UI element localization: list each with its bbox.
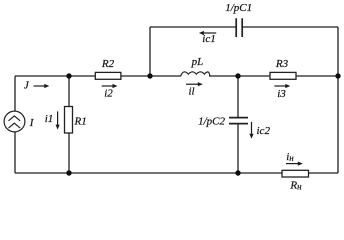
node at right vertical [335, 73, 340, 78]
wire: top C1 branch vertical left [149, 27, 151, 76]
svg-text:R2: R2 [101, 58, 115, 70]
wire: main horizontal left segment [15, 75, 95, 77]
arrow in [286, 162, 303, 166]
svg-text:R1: R1 [74, 115, 87, 127]
capacitor C2 [229, 118, 248, 124]
node at R1 top [66, 73, 71, 78]
wire: bottom horizontal right [309, 172, 339, 174]
node at C2 branch bottom [235, 170, 240, 175]
svg-text:1/pC1: 1/pC1 [225, 2, 252, 14]
resistor R3 [270, 72, 296, 79]
svg-text:i1: i1 [45, 113, 54, 125]
capacitor C1 [236, 18, 242, 37]
wire: C2 branch upper [237, 76, 239, 117]
resistor Rn (load) [282, 170, 309, 177]
arrow ic2 [249, 122, 253, 139]
arrow il [186, 82, 203, 86]
arrow ic1 [199, 31, 216, 35]
svg-text:iн: iн [286, 151, 294, 163]
svg-text:i3: i3 [277, 88, 286, 100]
resistor R2 [95, 72, 121, 79]
wire: left vertical upper [14, 76, 16, 111]
wire: left vertical lower [14, 132, 16, 173]
svg-text:ic1: ic1 [202, 33, 215, 45]
wire: main horizontal R3-to-right [296, 75, 338, 77]
wire: R1 branch lower [68, 133, 70, 173]
wire: C2 branch lower [237, 124, 239, 173]
current source I [4, 111, 25, 132]
arrow i1 [56, 111, 60, 129]
arrow J [34, 84, 50, 88]
svg-text:il: il [188, 86, 194, 98]
svg-text:R3: R3 [275, 58, 289, 70]
svg-text:i2: i2 [104, 88, 113, 100]
svg-text:Rн: Rн [289, 180, 302, 192]
node at C1 branch left [147, 73, 152, 78]
wire: main horizontal R2-to-inductor [121, 75, 181, 77]
wire: top C1 branch horizontal right [242, 26, 338, 28]
wire: bottom horizontal left [15, 172, 282, 174]
svg-text:pL: pL [191, 56, 204, 68]
wire: main horizontal inductor-to-R3 [209, 75, 270, 77]
node at C2 branch top [235, 73, 240, 78]
svg-text:1/pC2: 1/pC2 [198, 116, 225, 128]
resistor R1 [65, 107, 73, 134]
svg-text:I: I [29, 117, 35, 129]
svg-text:ic2: ic2 [257, 125, 271, 137]
inductor pL [181, 72, 210, 76]
wire: top C1 branch horizontal left [150, 26, 236, 28]
wire: R1 branch upper [68, 76, 70, 107]
wire: right vertical [337, 27, 339, 173]
svg-text:J: J [24, 80, 30, 92]
node at R1 bottom [66, 170, 71, 175]
arrow i3 [274, 84, 290, 88]
arrow i2 [102, 84, 118, 88]
